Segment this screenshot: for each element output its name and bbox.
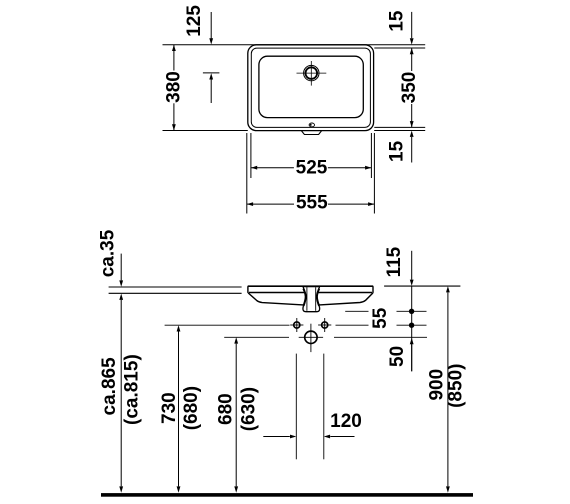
svg-text:15: 15 <box>387 10 408 32</box>
svg-text:(630): (630) <box>239 387 260 431</box>
svg-text:50: 50 <box>387 346 408 367</box>
svg-text:(850): (850) <box>445 364 466 408</box>
svg-text:ca.865: ca.865 <box>99 357 120 416</box>
svg-text:730: 730 <box>159 392 180 424</box>
svg-text:ca.35: ca.35 <box>97 229 118 277</box>
svg-text:555: 555 <box>296 193 328 214</box>
svg-text:(ca.815): (ca.815) <box>121 354 142 425</box>
svg-text:120: 120 <box>330 411 362 432</box>
svg-text:680: 680 <box>216 393 237 425</box>
svg-text:380: 380 <box>163 71 184 103</box>
svg-text:55: 55 <box>370 307 391 329</box>
svg-text:15: 15 <box>386 140 407 162</box>
svg-text:350: 350 <box>399 72 420 104</box>
svg-text:115: 115 <box>384 246 405 277</box>
svg-text:125: 125 <box>184 5 205 37</box>
svg-text:525: 525 <box>296 158 328 179</box>
svg-text:(680): (680) <box>181 386 202 430</box>
